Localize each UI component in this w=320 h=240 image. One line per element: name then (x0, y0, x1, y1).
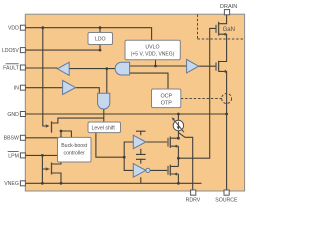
pin IN (20, 85, 25, 90)
svg-text:VNEG: VNEG (4, 181, 19, 187)
wire push-pull top FET stubs (170, 138, 178, 146)
node LDO5V (99, 49, 102, 52)
node buck mid BBSW (60, 136, 63, 139)
block LDO (88, 33, 113, 45)
node current source on GND (177, 113, 180, 116)
svg-text:LPM: LPM (8, 153, 19, 159)
wire gate lower line to OCP (130, 73, 168, 89)
wire UVLO output drop (155, 60, 157, 66)
transistor push-pull bottom FET (169, 165, 171, 176)
node buffers input split (123, 156, 126, 159)
pin GND (20, 112, 25, 117)
wire VDD rail (23, 28, 152, 41)
svg-text:Level shift: Level shift (92, 126, 116, 132)
svg-text:OTP: OTP (161, 100, 172, 106)
wire FAULT line (23, 67, 57, 69)
wire buffer input split up (124, 142, 133, 157)
svg-text:IN: IN (14, 86, 19, 92)
svg-text:FAULT: FAULT (3, 65, 20, 71)
node LDO input tap (99, 26, 102, 29)
svg-text:(+5 V, VDD, VNEG): (+5 V, VDD, VNEG) (131, 51, 175, 57)
wire LDO output to LDO5V line (23, 45, 100, 51)
wire push-pull mid rail (177, 146, 179, 166)
node VDD buck rail tap (41, 26, 44, 29)
svg-text:VDD: VDD (8, 26, 19, 32)
svg-text:OCP: OCP (160, 93, 172, 99)
svg-text:GaN: GaN (223, 27, 235, 33)
wire VNEG line (23, 182, 202, 184)
wire bottom inverter out to FET gate (150, 169, 167, 171)
transistor buck high FET (51, 121, 53, 132)
wire push-pull bottom FET stubs (170, 166, 178, 183)
svg-text:SOURCE: SOURCE (215, 197, 238, 203)
wire buffer supply T top (136, 131, 146, 135)
node LPM drop on VNEG (41, 182, 44, 185)
transistor GaN FET (218, 22, 220, 36)
transistor push-pull top FET (169, 137, 171, 148)
dashed temperature sense circle (222, 94, 232, 104)
wire GaN source to mid FET drain (219, 34, 227, 61)
svg-text:UVLO: UVLO (145, 45, 159, 51)
op-amp IN buffer (63, 80, 76, 94)
wire BBSW line (23, 137, 61, 139)
node fault net branch (105, 67, 108, 70)
node buck low source on VNEG (60, 182, 63, 185)
IC package body (25, 14, 244, 191)
pin LDO5V (20, 48, 25, 53)
pin SOURCE (224, 190, 229, 195)
wire level shift output to buffers (96, 133, 124, 158)
svg-text:LDO: LDO (95, 37, 106, 43)
wire LPM line (23, 154, 58, 156)
wire driver output to mid FET gate (199, 65, 216, 67)
svg-text:LDO5V: LDO5V (2, 48, 20, 54)
pin VNEG (20, 181, 25, 186)
pin RDRV (191, 190, 196, 195)
block Level shift (88, 122, 121, 133)
wire fault net down to AND input (106, 69, 108, 94)
wire buck source sense into controller (61, 131, 71, 137)
wire midnode to GaN gate rail (178, 28, 215, 158)
gate fault AND (D-shape) (115, 62, 129, 75)
wire fault net inverter to gate (69, 68, 115, 70)
svg-text:DRAIN: DRAIN (220, 4, 237, 10)
wire buck drain to level-shift drop (52, 118, 104, 123)
node UVLO output junction (154, 65, 157, 68)
pin VDD (20, 25, 25, 30)
svg-text:BBSW: BBSW (4, 136, 19, 142)
svg-text:GND: GND (7, 112, 19, 118)
wire GND line (23, 113, 227, 115)
wire RDRV tap diagonal (178, 133, 192, 190)
transistor mid source FET (218, 61, 220, 72)
svg-text:RDRV: RDRV (186, 197, 201, 203)
node bottom FET source on VNEG (177, 182, 180, 185)
wire mid FET source to SOURCE pin (219, 71, 227, 190)
wire buffer supply T mid lower (136, 159, 146, 163)
gate input AND (vertical) (98, 93, 110, 109)
block UVLO (125, 40, 180, 60)
wire current source top stub (177, 114, 179, 120)
wire buffer supply T mid upper (136, 149, 146, 155)
wire IN buffer to AND input (76, 88, 100, 94)
svg-text:Buck-boost: Buck-boost (61, 143, 88, 149)
wire buck low source to VNEG (52, 173, 62, 183)
wire LPM branch to low buck gate (42, 155, 49, 183)
op-amp gate driver (187, 59, 199, 73)
wire VDD to buck gate rail (43, 28, 46, 126)
svg-text:controller: controller (64, 151, 86, 157)
node current source drain junction (177, 137, 180, 140)
dashed OCP temperature line (181, 98, 222, 100)
wire IN line (23, 87, 63, 89)
pin BBSW (20, 135, 25, 140)
wire AND output to level shift (103, 109, 105, 122)
wire LDO input stub (99, 28, 101, 33)
op-amp pull-up buffer (133, 135, 146, 149)
op-amp pull-down inverter (133, 164, 146, 178)
node buck source sense (60, 130, 63, 133)
node LPM gate branch (41, 154, 44, 157)
node source rail on GND (225, 113, 228, 116)
transistor buck low FET (51, 163, 53, 175)
pin FAULT (active low) (20, 65, 25, 70)
wire buffer input split down (124, 157, 133, 170)
current source I1 (173, 120, 183, 130)
dashed GaN die outline (198, 15, 245, 40)
wire GaN drain to DRAIN pin (219, 15, 227, 24)
op-amp FAULT inverter (57, 62, 69, 75)
wire gate upper line to driver (130, 65, 187, 67)
block Buck-boost controller (58, 137, 92, 162)
node push-pull midnode (177, 157, 180, 160)
wire current source bottom to FET drain (177, 131, 179, 139)
wire buck mid rail (52, 131, 62, 164)
wire top buffer out to FET gate (146, 141, 167, 143)
pin LPM (20, 153, 25, 158)
block OCP OTP (152, 89, 181, 108)
pin DRAIN (224, 10, 229, 15)
wire bottom buffer supply to VNEG (140, 177, 142, 183)
